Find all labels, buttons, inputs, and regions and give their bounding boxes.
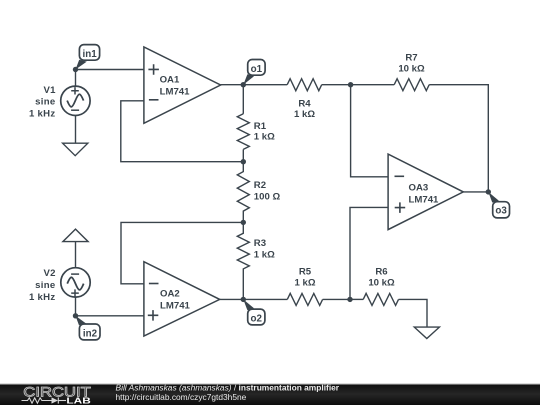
- svg-text:1 kΩ: 1 kΩ: [254, 131, 275, 142]
- label V1 value text: [29, 85, 56, 120]
- node B (junction dot, R2/R3/OA2 feedback): [241, 220, 246, 225]
- svg-text:http://circuitlab.com/czyc7gtd: http://circuitlab.com/czyc7gtd3h5ne: [116, 392, 247, 402]
- label R4 value: [294, 99, 315, 121]
- svg-text:1 kHz: 1 kHz: [29, 108, 56, 119]
- wire: R6 right down to ground: [399, 299, 428, 327]
- wire: node o1 down to R1: [242, 85, 244, 114]
- CircuitLab logo: resistor-diode waveform: [22, 397, 67, 403]
- svg-text:R6: R6: [375, 266, 387, 277]
- label R5 value: [294, 266, 315, 288]
- svg-text:100 Ω: 100 Ω: [254, 192, 281, 203]
- wire: OA2 inverting input feedback loop: [121, 222, 243, 283]
- wire: OA1 output to node o1: [221, 84, 244, 86]
- svg-text:10 kΩ: 10 kΩ: [398, 64, 425, 75]
- svg-text:sine: sine: [35, 280, 55, 291]
- wire: V1 bottom terminal to ground: [75, 116, 77, 144]
- node in1 (junction dot): [73, 67, 78, 72]
- node C (junction dot, R4/R7/OA3 inverting): [348, 82, 353, 87]
- op-amp OA2: [144, 262, 220, 336]
- svg-text:o3: o3: [495, 205, 507, 216]
- ground (below V1): [63, 143, 88, 156]
- wire: OA2 output to node o2: [220, 298, 244, 300]
- svg-text:sine: sine: [35, 97, 55, 108]
- wire: OA3 non-inverting input to node D: [350, 207, 388, 299]
- svg-text:R7: R7: [405, 52, 417, 63]
- svg-text:10 kΩ: 10 kΩ: [368, 278, 395, 289]
- svg-text:1 kΩ: 1 kΩ: [294, 109, 315, 120]
- flag o1: [243, 60, 265, 85]
- op-amp OA1: [144, 47, 221, 123]
- svg-text:LAB: LAB: [66, 397, 91, 405]
- flag o3: [488, 192, 509, 218]
- wire: node o1 to R4: [243, 84, 287, 86]
- wire: OA3 output to node o3: [463, 191, 488, 193]
- svg-text:OA1: OA1: [160, 74, 180, 85]
- node A (junction dot, R1/R2/OA1 feedback): [241, 159, 246, 164]
- svg-text:OA3: OA3: [409, 183, 429, 194]
- node o3 (junction dot): [486, 189, 491, 194]
- svg-text:o2: o2: [250, 313, 262, 324]
- wire: OA1 inverting input feedback loop: [121, 101, 244, 162]
- wire: in2 node to OA2 non-inverting input: [76, 315, 144, 317]
- resistor R3: [237, 222, 249, 299]
- resistor R2: [237, 162, 249, 223]
- svg-text:1 kHz: 1 kHz: [29, 292, 56, 303]
- ground (flipped, above V2): [63, 229, 88, 242]
- wire: in1 node down to V1 top terminal: [75, 70, 77, 87]
- svg-text:1 kΩ: 1 kΩ: [294, 278, 315, 289]
- svg-text:o1: o1: [251, 64, 263, 75]
- label R6 value: [368, 266, 395, 288]
- node D (junction dot, R5/R6/OA3 non-inverting): [347, 297, 352, 302]
- svg-text:LM741: LM741: [160, 86, 191, 97]
- wire: ground to V2 top terminal: [75, 242, 77, 268]
- resistor R6: [363, 293, 398, 305]
- label R3 value: [254, 238, 275, 260]
- flag in2: [76, 316, 101, 340]
- flag in1: [76, 45, 100, 70]
- op-amp OA3: [388, 154, 463, 230]
- resistor R7: [394, 79, 429, 91]
- svg-text:R1: R1: [254, 121, 267, 132]
- label V2 value text: [29, 268, 56, 303]
- svg-text:LM741: LM741: [160, 301, 191, 312]
- flag o2: [243, 299, 265, 325]
- svg-text:R4: R4: [298, 99, 311, 110]
- node in2 (junction dot): [73, 313, 78, 318]
- svg-text:V1: V1: [43, 85, 56, 96]
- wire: in1 node to OA1 non-inverting input: [76, 69, 144, 71]
- resistor R1: [237, 114, 249, 150]
- voltage source V2 (sine): [61, 268, 90, 297]
- svg-text:in1: in1: [83, 49, 98, 60]
- svg-text:1 kΩ: 1 kΩ: [254, 249, 275, 260]
- label R2 value: [254, 180, 281, 203]
- wire: V2 bottom terminal to in2 node: [75, 297, 77, 316]
- wire: R5 to node D: [323, 298, 350, 300]
- footer bar: [0, 383, 540, 405]
- resistor R5: [287, 293, 322, 305]
- svg-text:in2: in2: [83, 328, 98, 339]
- wire: R4 to node C: [322, 84, 351, 86]
- wire: node D to R6: [350, 298, 363, 300]
- wire: node C down to OA3 inverting input: [351, 85, 389, 177]
- svg-text:LM741: LM741: [409, 195, 440, 206]
- wire: node o2 to R5: [243, 298, 287, 300]
- node o1 (junction dot): [241, 82, 246, 87]
- wire: R7 right to o3 node (feedback): [429, 85, 488, 192]
- ground (below R6): [414, 327, 439, 338]
- wire: node C to R7: [351, 84, 395, 86]
- label R1 value: [254, 121, 275, 143]
- wire: R1 bottom to node A: [242, 149, 244, 161]
- svg-text:R3: R3: [254, 238, 266, 249]
- resistor R4: [287, 79, 322, 91]
- node o2 (junction dot): [241, 297, 246, 302]
- svg-text:OA2: OA2: [160, 289, 180, 300]
- svg-text:V2: V2: [43, 268, 55, 279]
- svg-text:R2: R2: [254, 180, 266, 191]
- voltage source V1 (sine): [61, 86, 90, 115]
- svg-text:R5: R5: [299, 266, 312, 277]
- label R7 value: [398, 52, 425, 74]
